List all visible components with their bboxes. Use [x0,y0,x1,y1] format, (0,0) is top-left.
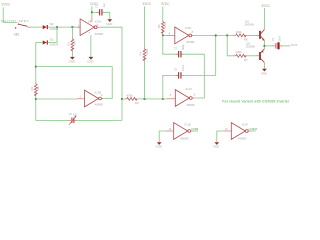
wire: C3 right plate up to drive net [182,35,216,75]
svg-text:OUT: OUT [291,43,298,47]
inverter gate IC1B 4069D [85,90,104,107]
diode D2 1N914 [43,22,59,31]
wire: input net to R1 [71,27,73,37]
red stub: pin 14 [91,17,93,22]
svg-text:N$10: N$10 [251,128,258,131]
svg-text:470k: 470k [126,93,133,97]
resistor R2 1M (vertical) [30,82,40,96]
wire: 3VDC to IC1A VDD pin [91,6,93,17]
junction: IC1D input node [162,35,164,37]
wire: 3VDC rail down to switch [3,7,17,22]
wire: C1 to ground [103,12,110,19]
svg-text:R3: R3 [135,101,139,105]
svg-text:GND: GND [87,59,93,63]
svg-text:Fox Hound Variant with CD4069: Fox Hound Variant with CD4069 inverter [222,99,290,103]
wire: IC1A GND pin to ground [90,35,92,57]
capacitor C3 0.1uF (lower coupling) [175,64,186,78]
wire: IC1D output drive net [194,34,233,36]
junction: IC1B input tap [35,98,37,100]
inverter gate IC1D 4069D [175,26,195,44]
svg-text:IC1E: IC1E [184,122,190,126]
wire: D1 anode left and down to R2 [36,43,43,82]
svg-text:3VDC: 3VDC [142,2,151,6]
svg-text:100k: 100k [163,21,167,28]
junction: output node [264,45,266,47]
wire: switch to diode D2 [30,26,42,28]
svg-text:R6: R6 [244,38,248,42]
svg-text:1N914: 1N914 [50,43,59,47]
svg-text:GND: GND [69,59,75,63]
red stub: Q4 base [255,34,259,36]
svg-text:0.1uF: 0.1uF [182,64,185,71]
svg-text:R5: R5 [157,24,161,28]
svg-text:2N3904: 2N3904 [244,22,254,26]
red stub: IC1C input pin [167,98,176,100]
svg-text:IC1A: IC1A [95,20,101,24]
resistor R6 100k (horizontal) [233,30,248,42]
wire: IC1F output stub [251,130,256,132]
svg-text:GND: GND [261,71,267,75]
svg-text:SWITCH_SPDT: SWITCH_SPDT [1,19,29,23]
svg-text:4069D: 4069D [180,137,189,141]
svg-text:IC1C: IC1C [186,87,193,91]
inverter gate IC1F 4069D [231,122,250,140]
wire: R4 bottom to R3 net [144,60,146,99]
wire: IC1B output feedback to D1/R2 column [36,67,112,99]
capacitor C1 0.1uF [96,3,107,16]
wire: ground to IC1E input [159,131,166,142]
red stub: IC1D input pin [165,34,175,36]
svg-text:GND: GND [106,22,112,26]
svg-text:100k: 100k [235,30,242,34]
wire: R3 to C3/IC1C node [138,98,163,100]
wire: IC1A output right and down to R3 node [99,27,122,120]
red stub: IC1B input pin [77,98,85,100]
svg-text:4069D: 4069D [95,103,104,107]
wire: R2 bottom to bottom rail [36,95,69,120]
resistor R7 100k (horizontal) [233,50,248,62]
wire: R5 to IC1D input node [163,33,166,35]
inverter gate IC1A 4069D [80,19,103,36]
svg-text:4069D: 4069D [186,103,195,107]
capacitor C2 (upper coupling) [175,44,186,58]
inverter gate IC1E 4069D [174,122,193,140]
wire: R6 to Q4 base [247,34,256,36]
svg-text:2N3906: 2N3906 [246,45,256,49]
wire: Q5 collector to ground [263,63,265,69]
wire: C2 right to IC1C output column [182,54,205,98]
wire: ground to IC1F input [217,131,224,142]
ground symbol (IC1A pin 7) [87,57,93,64]
ground symbol (C1) [106,19,112,26]
wire: R3 left to column [122,98,124,100]
svg-text:U$1: U$1 [14,33,20,37]
wire: trimmer to IC1A output column [75,119,122,121]
svg-text:IC1F: IC1F [242,122,248,126]
svg-text:GND: GND [213,145,219,149]
svg-text:R1: R1 [67,42,71,46]
svg-text:3VDC: 3VDC [1,2,11,6]
wire: 3VDC to Q4 collector [263,8,265,30]
svg-text:R7: R7 [244,58,248,62]
ground symbol (IC1E input) [156,142,162,149]
capacitor C4 (output coupling, polarized) [272,35,284,49]
svg-text:100K: 100K [145,49,149,56]
junction: R4 bottom node [144,98,146,100]
wire: D2 cathode to IC1A input [48,26,77,28]
ground symbol (R1) [69,57,75,64]
inverter gate IC1C 4069D [175,87,194,107]
svg-text:3VDC: 3VDC [261,4,270,8]
junction: feedback wire tap [35,66,37,68]
red stub: Q5 base [255,55,259,57]
svg-text:4069D: 4069D [186,40,195,44]
junction: D1 tap on input net [56,26,58,28]
svg-text:R4: R4 [139,51,143,55]
svg-text:3VDC: 3VDC [161,2,170,6]
wire: Q4 emitter to Q5 emitter (output node) [263,40,265,48]
junction: C3 bottom node [162,98,164,100]
red stub: IC1F input pin [224,130,232,132]
wire: 3VDC to R4 [144,6,146,46]
wire: junction to C1 [92,11,99,13]
junction: C1 tap [91,11,93,13]
svg-text:D2: D2 [50,22,54,26]
svg-text:10K: 10K [73,40,77,45]
svg-text:4069D: 4069D [95,32,104,36]
diode D1 1N914 [43,37,59,46]
transistor Q5 2N3906 (PNP) [246,42,265,63]
junction: R3 node [121,98,123,100]
wire: 3VDC to R5 [162,6,164,19]
svg-text:D1: D1 [50,37,54,41]
switch U$1 SWITCH_SPDT [15,23,31,28]
wire: R1 to ground [71,50,73,57]
trimmer capacitor C5 [69,113,78,125]
svg-text:10uF: 10uF [278,35,281,41]
wire: C4 to OUT [283,45,290,47]
wire: node to IC1C input [163,98,167,100]
svg-text:4069D: 4069D [238,137,247,141]
wire: D1 cathode up to input net [48,27,57,42]
resistor R3 470k (horizontal) [124,93,139,105]
svg-text:100k: 100k [235,50,242,54]
wire: IC1E output stub [193,130,198,132]
junction: R1 tap on input net [72,26,74,28]
wire: R7 branch [227,35,233,55]
ground symbol (IC1F input) [213,142,219,149]
ground symbol (Q5 collector) [261,69,267,76]
resistor R1 10K (vertical) [67,37,77,51]
resistor R4 100K (vertical) [139,47,149,61]
wire: output node to C4 [264,45,271,47]
red stub: IC1E input pin [166,130,174,132]
transistor Q4 2N3904 (NPN) [244,19,264,40]
svg-text:1M: 1M [36,86,40,91]
wire: IC1D input node down to C2 [163,35,178,54]
wire: C3 node up and left plate feed [163,75,178,99]
wire: R2 node to IC1B input [36,98,77,100]
svg-text:R2: R2 [30,87,34,91]
junction: C3 top tap [215,35,217,37]
svg-text:N$9: N$9 [194,128,199,131]
junction: R7 branch tap [226,35,228,37]
svg-text:10p: 10p [73,114,78,117]
red stub: IC1A input pin [77,26,81,28]
svg-text:680p: 680p [182,44,185,50]
svg-text:GND: GND [156,145,162,149]
wire: R7 to Q5 base [247,55,256,57]
svg-text:.1uF: .1uF [103,3,106,8]
resistor R5 100k (vertical) [157,19,167,33]
svg-text:IC1D: IC1D [185,26,192,30]
